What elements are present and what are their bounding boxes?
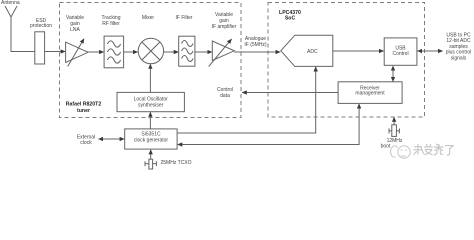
wire antenna to ESD: [11, 51, 35, 53]
mixer M1: [138, 38, 163, 63]
svg-text:tuner: tuner: [77, 108, 90, 114]
wire receiver management to clock generator (bidirectional): [178, 104, 359, 145]
IF amp gain arrow: [209, 39, 232, 67]
wire control data to tuner: [242, 92, 338, 94]
svg-text:SoC: SoC: [285, 16, 296, 22]
amplifier IF variable gain: [212, 41, 234, 61]
wire Si5351C to LO synth: [149, 112, 151, 129]
tuner dashed box Rafael R820T2: [60, 3, 242, 118]
wire LO synth to mixer: [149, 64, 151, 92]
wire external clock (bidirectional): [99, 138, 125, 140]
svg-text:Antenna: Antenna: [1, 0, 20, 6]
svg-text:RF filter: RF filter: [102, 21, 120, 27]
block Si5351C clock generator: [125, 129, 177, 149]
svg-text:Mixer: Mixer: [142, 15, 155, 21]
svg-text:signals: signals: [451, 55, 467, 61]
watermark text (hand-drawn CJK strokes: 我变秃了): [414, 144, 453, 155]
wire RF filter to mixer: [124, 51, 138, 53]
svg-text:protection: protection: [30, 23, 52, 29]
svg-text:Control: Control: [392, 51, 408, 57]
svg-text:clock: clock: [80, 140, 92, 146]
svg-text:management: management: [355, 91, 385, 97]
wire boot crystal to SoC: [393, 117, 395, 125]
wire TCXO to clock generator: [150, 150, 152, 159]
block ESD protection: [35, 32, 45, 64]
SoC dashed box LPC4370: [268, 3, 425, 118]
svg-text:clock generator: clock generator: [134, 138, 169, 144]
block Receiver management: [338, 82, 402, 104]
wire IF amp to ADC: [234, 51, 280, 53]
svg-text:synthesiser: synthesiser: [138, 103, 164, 109]
antenna A1: [5, 6, 17, 52]
svg-text:Rafael R820T2: Rafael R820T2: [66, 102, 102, 108]
svg-text:ADC: ADC: [307, 49, 318, 55]
wire mixer to IF filter: [164, 51, 179, 53]
svg-text:25MHz TCXO: 25MHz TCXO: [161, 160, 192, 166]
watermark icon: [391, 146, 411, 158]
wire USB control to PC (bidirectional): [418, 50, 443, 52]
wire LNA to RF filter: [88, 51, 104, 53]
block USB Control: [384, 38, 417, 65]
svg-text:data: data: [220, 93, 230, 99]
filter IF: [179, 36, 195, 66]
svg-text:LNA: LNA: [70, 27, 80, 33]
wire USB control to receiver management (bidirectional): [392, 66, 394, 82]
LNA gain arrow: [68, 39, 84, 67]
wire ADC to USB control: [333, 50, 384, 52]
svg-text:IF amplifier: IF amplifier: [212, 24, 237, 30]
svg-text:IF Filter: IF Filter: [176, 15, 193, 21]
wire clock to ADC: [177, 67, 316, 133]
crystal 25MHz TCXO: [145, 159, 156, 169]
svg-text:IF (5MHz): IF (5MHz): [244, 42, 267, 48]
filter tracking RF: [104, 36, 124, 68]
wire IF filter to IF amplifier: [195, 51, 212, 53]
block ADC: [281, 35, 333, 66]
crystal 12MHz boot: [389, 125, 399, 137]
wire ESD to LNA: [45, 51, 66, 53]
svg-text:boot: boot: [381, 144, 391, 150]
amplifier LNA: [66, 42, 89, 62]
block Local Oscillator synthesiser: [117, 92, 184, 111]
